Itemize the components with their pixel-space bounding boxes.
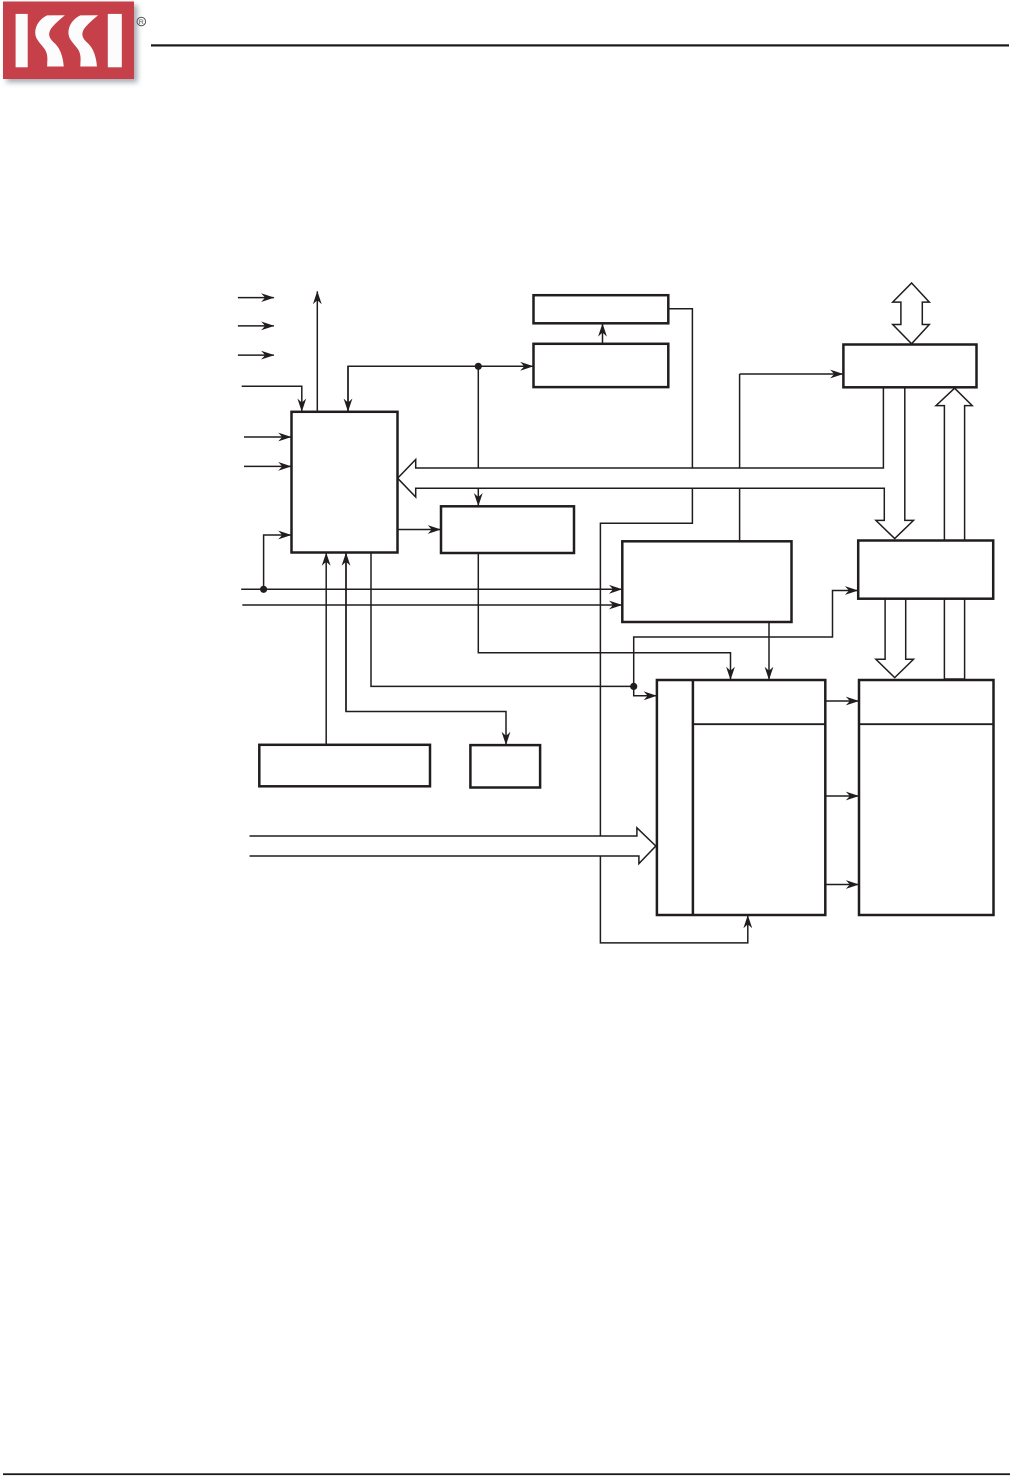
block: B (right middle block): [858, 541, 993, 599]
node: junction on address bus: [260, 586, 267, 593]
wire: memory to block C arrow 2: [825, 795, 858, 797]
hollow bus: wide arrow into control block merged with wide arrow from block A down to block B: [398, 388, 914, 539]
block: 6 (bottom small block): [470, 745, 540, 787]
block: 4 (middle right block): [622, 541, 791, 622]
wire: address bus line 1 into block 4: [241, 588, 622, 590]
wire: output arrow up from control block top: [316, 291, 318, 411]
wire: input stub arrow 1: [238, 297, 274, 299]
hollow bus: wide arrow from block C up to block A: [936, 388, 972, 679]
wire: from junction B into memory block left: [634, 686, 657, 695]
wire: vertical from junction A down to block 3 (lower part with arrow): [477, 488, 479, 506]
wire: arrow from control block right into block 3 left: [398, 529, 441, 531]
hollow bus: bidirectional data arrow above block A: [893, 283, 930, 344]
wire: vertical from block 5 up into control block bottom: [325, 553, 327, 745]
wire: memory to block C arrow 1: [825, 700, 858, 702]
hollow bus: wide address arrow into memory block: [250, 828, 656, 864]
wire: clock line into control block top and to register 2: [348, 366, 533, 411]
wire: input stub arrow 3: [238, 354, 274, 356]
wire: from block 3 bottom down into memory block top: [478, 553, 730, 680]
ISSI logo: [3, 2, 146, 80]
block: register 2 (top middle lower): [534, 344, 669, 387]
wire: input arrow into control block left 2: [244, 465, 291, 467]
header rule: [151, 44, 1009, 46]
block: A (I/O data block top right): [843, 345, 976, 388]
svg-text:R: R: [139, 19, 144, 26]
block: memory array with row decoder strip: [657, 680, 825, 915]
block: control logic (main left block): [292, 412, 398, 553]
wire: loop from register 1 right side down around to memory bottom: [668, 309, 692, 468]
block: C (right bottom block): [859, 680, 994, 915]
wire: vertical from junction A down to block 3 (upper part): [477, 366, 479, 468]
node: junction B: [630, 683, 637, 690]
wire: from junction B up and over into block B left: [634, 591, 858, 687]
block: register 1 (top middle upper): [534, 295, 669, 323]
wire: vertical resuming below bus into block 4 top: [739, 488, 741, 541]
wire: address bus line 2 into block 4: [242, 604, 622, 606]
block: 5 (bottom left block): [259, 745, 430, 787]
wire: vertical from block A feed down to bus top: [739, 374, 741, 468]
hollow bus: wide arrow from block B down to block C: [876, 599, 914, 678]
wire: arrow from register 2 up to register 1: [602, 324, 604, 344]
wire: elbow from control block bottom down to block 6: [346, 553, 506, 745]
footer rule: [3, 1473, 1010, 1475]
block: 3 (middle decoder block): [441, 506, 574, 553]
wire: from block 4 bottom down into memory block top: [768, 622, 770, 680]
wire: from control block bottom down to junction B: [371, 553, 634, 687]
wire: input arrow into control block left 1: [244, 436, 291, 438]
wire: elbow from bus junction up into control block left: [264, 535, 291, 589]
wire: elbow input into control block top: [242, 386, 302, 411]
node: junction A: [475, 363, 482, 370]
wire: memory to block C arrow 3: [825, 884, 858, 886]
wire: input stub arrow 2: [238, 325, 274, 327]
wire: horizontal into block A left: [740, 373, 843, 375]
